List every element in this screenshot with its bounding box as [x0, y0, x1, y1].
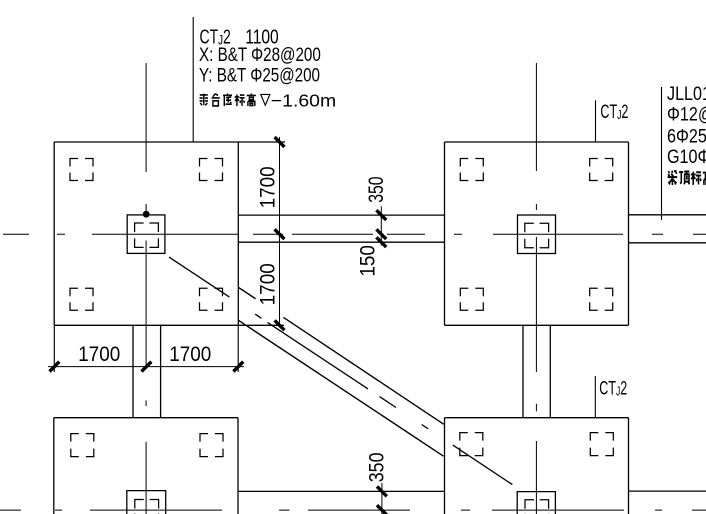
elevation triangle and -1.60m — [261, 90, 336, 110]
svg-text:350: 350 — [365, 452, 389, 482]
pile cap bottom-left outline (clipped) — [54, 418, 238, 514]
piles of top-left cap (dashed squares) — [70, 159, 223, 311]
vertical column centerline x=536 — [535, 63, 537, 514]
right note block: JLL01 etc — [667, 83, 706, 168]
diagonal beam top edge (broken under 1700 text) — [238, 287, 255, 299]
svg-text:1700: 1700 — [169, 343, 211, 366]
vertical column centerline x=146 — [145, 63, 147, 514]
beam edge right of bottom-right cap — [629, 490, 706, 492]
piles of bottom-right cap (dashed squares) — [460, 433, 614, 456]
horizontal axis centerline y=510 — [0, 509, 706, 511]
diagonal beam bottom edge — [238, 320, 443, 456]
svg-text:6Φ25 2: 6Φ25 2 — [667, 125, 706, 147]
dimension line vertical x=279.5 (1700/1700) — [279, 137, 281, 327]
pile cap CT2 top-right outline — [445, 142, 629, 325]
svg-text:350: 350 — [364, 176, 388, 202]
piles of top-right cap (dashed squares) — [460, 159, 612, 311]
horizontal axis centerline y=234 — [3, 233, 706, 235]
svg-text:Φ12@: Φ12@ — [667, 103, 706, 125]
svg-text:Y: B&T Φ25@200: Y: B&T Φ25@200 — [199, 64, 320, 86]
right note block hanzi: liang ding biao gao — [668, 170, 706, 184]
leader line of CT2 label top-right — [595, 100, 597, 141]
note block line4 hanzi: cheng tai di biao gao — [200, 93, 256, 106]
dimension ticks (slashes) — [50, 137, 387, 514]
svg-text:X: B&T Φ28@200: X: B&T Φ28@200 — [199, 44, 321, 66]
dimension line x=381.9 bottom (350) — [381, 483, 383, 514]
leader line of right note block — [661, 87, 663, 220]
extension line overruns at cap top and bottom — [238, 141, 285, 143]
svg-text:1700: 1700 — [257, 263, 280, 305]
pile cap CT2 bottom-right outline (clipped) — [445, 418, 629, 514]
dimension line horizontal y=366.6 (1700/1700) — [48, 366, 244, 368]
beam edge between bottom caps — [238, 490, 445, 492]
svg-text:CTJ2: CTJ2 — [600, 102, 628, 123]
leader line of CT2 label bottom-right — [594, 376, 596, 418]
svg-text:1700: 1700 — [257, 166, 280, 208]
tie beam strip between right caps — [523, 325, 550, 418]
column at bottom-left cap (clipped) — [127, 491, 166, 514]
note block: CTJ2 1100 / X: B&T .28@200 / Y: B&T .25@200 / elevation — [199, 25, 321, 86]
column at top-left cap (outer plinth + dashed column) — [127, 215, 165, 254]
column at bottom-right cap (clipped) — [517, 492, 555, 514]
svg-text:1700: 1700 — [78, 343, 120, 366]
tie beam strip between left caps — [133, 325, 161, 418]
svg-text:−1.60m: −1.60m — [271, 90, 336, 110]
beam JLL edges right of top-right cap — [629, 215, 706, 243]
svg-text:G10Φ8: G10Φ8 — [667, 146, 706, 168]
node dot on top-left column centerline — [143, 211, 150, 218]
pile cap CT2 top-left outline — [54, 142, 238, 325]
svg-text:150: 150 — [357, 245, 380, 277]
piles of bottom-left cap (dashed squares) — [71, 434, 223, 457]
extension lines for bottom 1700 dims — [53, 325, 55, 372]
dimension line x=381.3 (350/150) — [380, 206, 382, 245]
column at top-right cap (outer plinth + dashed column) — [518, 215, 556, 254]
leader line of top-left note block — [192, 17, 194, 142]
diagonal beam centerline (dash-dot) — [169, 257, 512, 485]
svg-text:JLL01: JLL01 — [667, 83, 706, 105]
svg-text:CTJ2: CTJ2 — [599, 378, 627, 399]
beam JLL edges between top caps — [238, 215, 444, 242]
